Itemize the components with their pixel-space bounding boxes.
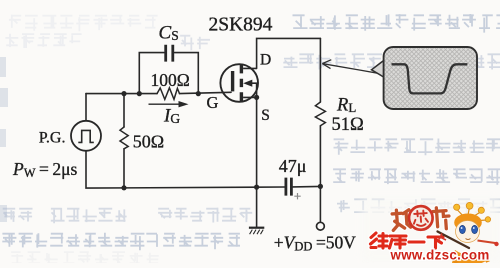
svg-text:D: D — [260, 51, 271, 68]
current arrow IG — [149, 101, 189, 107]
annotation arrow from callout to drain node — [322, 60, 381, 74]
capacitor C2 47u plates — [286, 178, 292, 196]
bleed-through text row mid-right 2 — [333, 169, 500, 185]
wire VDD terminal stem — [319, 186, 321, 222]
VDD output terminal (open circle) — [317, 222, 325, 230]
junction node source/ground — [254, 185, 259, 190]
character yi — [409, 240, 424, 243]
junction node at CS left — [137, 91, 142, 96]
svg-text:S: S — [261, 107, 270, 124]
pulse generator P.G. — [71, 121, 101, 151]
svg-text:47μ: 47μ — [279, 156, 307, 176]
wire CS branch left riser — [139, 53, 164, 94]
capacitor CS plates — [166, 45, 173, 62]
callout bubble body — [384, 47, 477, 109]
svg-text:51Ω: 51Ω — [332, 115, 364, 135]
character zhao — [392, 209, 411, 230]
watermark text wei-ku-yi-xia — [371, 233, 444, 248]
resistor 100 ohm zigzag — [157, 88, 180, 100]
callout bubble tail — [372, 56, 390, 81]
bleed-through text fragment near CS — [180, 36, 210, 51]
wire CS branch right riser — [175, 53, 199, 94]
bleed-through text row bottom edge — [11, 252, 159, 266]
junction node at 50-ohm bottom — [121, 185, 126, 190]
wire gate rail left segment — [86, 93, 157, 95]
bleed-through text row bottom 2 — [2, 233, 240, 251]
svg-text:www.dzsc.com: www.dzsc.com — [390, 248, 490, 263]
bleed-through text row top-left — [9, 15, 158, 32]
svg-text:50Ω: 50Ω — [133, 131, 164, 151]
wire RL bottom to rail — [319, 126, 321, 187]
wire gate rail right segment to gate — [180, 92, 232, 93]
bleed-through marks left edge — [0, 57, 8, 222]
svg-text:PW = 2μs: PW = 2μs — [12, 159, 78, 180]
wire drain to top rail — [257, 38, 321, 68]
wire 50-ohm branch upper — [123, 94, 125, 127]
bleed-through text row mid-right 3 — [337, 199, 500, 216]
wire source down to bottom rail — [256, 97, 258, 187]
red stamp circle around xin — [408, 205, 433, 230]
bleed-through text row top-right — [293, 14, 500, 33]
transistor U1 2SK894 MOSFET — [220, 64, 259, 102]
character ku — [390, 236, 407, 248]
watermark halo — [362, 198, 500, 263]
waveform trace inside callout — [392, 64, 468, 93]
junction node rail/VDD — [318, 184, 323, 189]
svg-text:2SK894: 2SK894 — [209, 15, 273, 36]
svg-text:P.G.: P.G. — [39, 129, 66, 146]
bleed-through text row mid-right 1 — [334, 139, 500, 156]
resistor RL zigzag — [315, 102, 325, 126]
wire top rail down to RL — [319, 38, 321, 102]
character xia — [428, 237, 443, 248]
svg-text:G: G — [207, 93, 219, 112]
watermark mascot — [452, 202, 499, 266]
junction node at CS right / gate — [196, 91, 201, 96]
polarity plus mark of 47u — [294, 193, 300, 199]
mascot arm stick over text — [438, 232, 470, 249]
wire bottom rail right of 47u — [293, 185, 321, 188]
wire 50-ohm branch lower — [123, 149, 125, 188]
bleed-through text row bottom 1 — [3, 208, 253, 224]
character wei — [371, 233, 388, 248]
wire bottom rail left of 47u — [86, 151, 284, 188]
svg-text:100Ω: 100Ω — [151, 70, 190, 90]
bleed-through text row 2 left — [5, 34, 81, 48]
resistor R 50 ohm zigzag — [120, 127, 128, 149]
bleed-through text row behind callout — [283, 53, 500, 69]
wire ground stem — [256, 187, 258, 227]
ground symbol — [249, 228, 264, 235]
watermark logo: zhao-xin-pian stylized text — [392, 204, 450, 232]
svg-text:+VDD =50V: +VDD =50V — [274, 233, 357, 254]
wire P.G. top to gate rail corner — [85, 94, 87, 121]
character pian — [433, 207, 450, 230]
junction node at 50-ohm top — [121, 91, 126, 96]
